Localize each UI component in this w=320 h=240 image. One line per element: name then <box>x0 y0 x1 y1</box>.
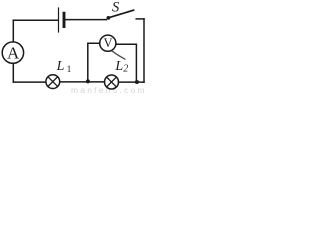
svg-text:L: L <box>56 59 65 74</box>
svg-text:S: S <box>112 0 120 15</box>
svg-text:L: L <box>114 59 123 74</box>
svg-text:V: V <box>103 36 112 50</box>
svg-text:A: A <box>7 44 20 63</box>
svg-text:manfen5.com: manfen5.com <box>71 85 147 95</box>
svg-text:2: 2 <box>123 64 128 75</box>
svg-text:1: 1 <box>67 65 72 75</box>
